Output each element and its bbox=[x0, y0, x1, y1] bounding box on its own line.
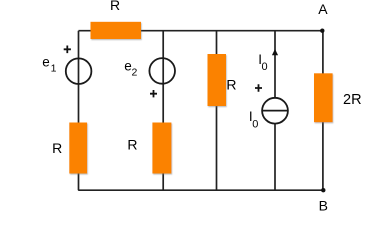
svg-text:2: 2 bbox=[132, 67, 138, 79]
svg-text:R: R bbox=[226, 76, 236, 92]
svg-text:B: B bbox=[319, 197, 328, 213]
svg-text:2R: 2R bbox=[343, 92, 362, 108]
svg-text:R: R bbox=[110, 0, 120, 13]
svg-text:A: A bbox=[318, 1, 328, 17]
svg-text:1: 1 bbox=[51, 63, 57, 75]
svg-text:R: R bbox=[127, 136, 137, 152]
svg-text:0: 0 bbox=[252, 119, 258, 131]
svg-text:e: e bbox=[42, 54, 50, 69]
svg-text:0: 0 bbox=[262, 61, 268, 73]
svg-text:R: R bbox=[52, 140, 62, 156]
